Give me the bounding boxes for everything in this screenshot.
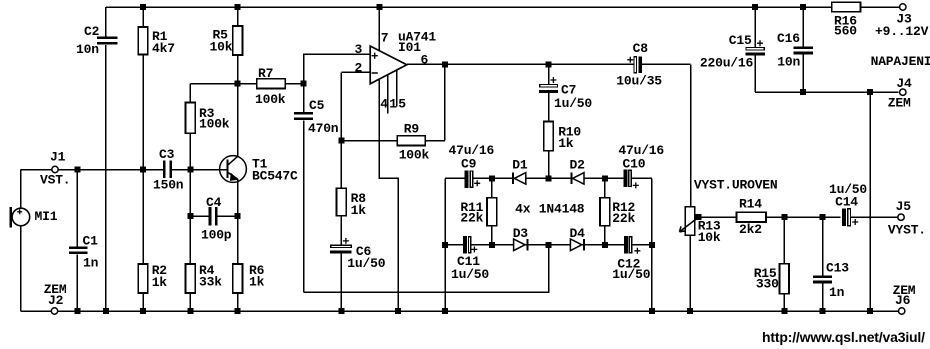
svg-text:1k: 1k <box>351 203 367 218</box>
wire R3/R4 column <box>189 84 191 311</box>
junction pin4 ground <box>395 308 401 314</box>
capacitor C15 220u/16 <box>700 33 765 71</box>
junction C12 right <box>649 242 655 248</box>
wire C4 row <box>190 215 237 217</box>
wire top diode row <box>445 177 652 179</box>
svg-text:4k7: 4k7 <box>152 41 175 56</box>
resistor R9 100k <box>397 122 429 163</box>
svg-text:J6: J6 <box>895 293 911 308</box>
svg-text:470n: 470n <box>308 121 339 136</box>
diode D3 1N4148 <box>513 226 529 251</box>
svg-text:C4: C4 <box>206 195 222 210</box>
capacitor C11 1u/50 <box>451 236 489 282</box>
svg-text:J1: J1 <box>50 150 66 165</box>
svg-text:C10: C10 <box>623 157 646 172</box>
wire output row <box>407 63 691 65</box>
junction C4 left <box>187 213 193 219</box>
svg-text:10n: 10n <box>777 55 800 70</box>
svg-text:100k: 100k <box>255 92 286 107</box>
svg-text:BC547C: BC547C <box>252 169 298 184</box>
pin 5 label <box>398 97 406 112</box>
pin 3 label <box>355 42 363 57</box>
junction D1/D2/R10 <box>546 175 552 181</box>
svg-text:1u/50: 1u/50 <box>829 182 867 197</box>
wire C2 column <box>105 7 107 311</box>
junction R5 top rail <box>235 4 241 10</box>
svg-text:1k: 1k <box>152 275 168 290</box>
wire top supply rail <box>106 6 900 8</box>
wire AGC return row <box>304 245 549 292</box>
label URL <box>762 329 925 345</box>
svg-text:100k: 100k <box>399 148 430 163</box>
junction C9/C11 ground <box>442 308 448 314</box>
svg-text:R7: R7 <box>258 66 273 81</box>
resistor R2 1k <box>138 263 167 293</box>
diode D1 1N4148 <box>512 158 528 185</box>
wire C10/C12 right column <box>651 178 653 311</box>
capacitor C1 1n <box>69 234 99 271</box>
wire ZEM row to J4 <box>755 91 899 93</box>
wire emitter/R6 column <box>237 179 239 311</box>
label NAPAJENI <box>871 54 930 69</box>
svg-text:R14: R14 <box>739 197 762 212</box>
svg-text:ZEM: ZEM <box>888 96 911 111</box>
junction D2/R12 <box>602 175 608 181</box>
junction C16 top rail <box>800 4 806 10</box>
svg-text:C15: C15 <box>729 33 752 48</box>
resistor R7 100k <box>255 66 286 107</box>
wire C15 column <box>754 7 756 92</box>
wire collector column <box>237 84 239 157</box>
potentiometer R13 10k <box>680 207 721 245</box>
resistor R14 2k2 <box>737 197 767 238</box>
junction C2 ground <box>103 308 109 314</box>
svg-text:VYST.: VYST. <box>888 223 926 238</box>
capacitor C7 1u/50 <box>539 77 592 111</box>
svg-text:4: 4 <box>380 97 388 112</box>
label VYST.UROVEN <box>694 178 778 193</box>
capacitor C16 10n <box>777 31 813 70</box>
resistor R5 10k <box>210 26 243 55</box>
pin 7 label <box>381 31 389 46</box>
svg-text:10n: 10n <box>76 42 99 57</box>
wire R9 to output <box>444 64 446 140</box>
junction output C7 <box>546 61 552 67</box>
svg-text:1u/50: 1u/50 <box>612 267 650 282</box>
svg-text:C16: C16 <box>777 31 800 46</box>
junction pin2/R8/R9 <box>338 138 344 144</box>
wire mic to J1 <box>21 169 52 171</box>
wire mic column lower <box>20 225 22 311</box>
junction R13 wiper <box>696 214 702 220</box>
pin 4 label <box>380 97 388 112</box>
wire C9/C11 left column <box>444 178 446 311</box>
svg-text:1u/50: 1u/50 <box>347 256 385 271</box>
resistor R3 100k <box>186 102 230 133</box>
wire wiper to R14 row <box>699 216 841 218</box>
junction R2 ground <box>140 308 146 314</box>
svg-text:D1: D1 <box>512 158 528 173</box>
svg-text:100p: 100p <box>201 228 232 243</box>
svg-text:C2: C2 <box>84 24 100 39</box>
svg-text:C13: C13 <box>826 261 849 276</box>
svg-text:C8: C8 <box>633 41 649 56</box>
diode D2 1N4148 <box>570 158 586 185</box>
svg-text:1N4148: 1N4148 <box>539 202 585 217</box>
junction C10/C12 ground <box>649 308 655 314</box>
svg-text:220u/16: 220u/16 <box>700 56 754 71</box>
svg-text:R9: R9 <box>404 122 420 137</box>
svg-text:C9: C9 <box>461 157 477 172</box>
junction C13 ground <box>820 308 826 314</box>
connector J4 ZEM <box>888 76 912 111</box>
svg-text:J2: J2 <box>48 293 64 308</box>
wire R11 column <box>491 178 493 244</box>
capacitor C8 10u/35 <box>616 41 662 89</box>
wire R1/R2 column <box>142 7 144 311</box>
junction D3/D4 <box>546 242 552 248</box>
wire pin7 column <box>378 7 380 51</box>
svg-text:+9..12V: +9..12V <box>875 24 929 39</box>
svg-text:1n: 1n <box>829 285 845 300</box>
svg-text:1u/50: 1u/50 <box>451 267 489 282</box>
svg-text:4x: 4x <box>515 202 531 217</box>
junction ZEM ground <box>867 308 873 314</box>
svg-text:33k: 33k <box>199 275 222 290</box>
junction R14/R15 <box>781 214 787 220</box>
junction C1 ground <box>74 308 80 314</box>
svg-text:7: 7 <box>381 31 389 46</box>
junction R13 ground <box>687 308 693 314</box>
pin 1 label <box>389 97 397 112</box>
svg-text:http://www.qsl.net/va3iul/: http://www.qsl.net/va3iul/ <box>762 329 925 345</box>
junction R4 ground <box>187 308 193 314</box>
svg-text:C5: C5 <box>309 98 325 113</box>
wire ZEM ground column <box>869 92 871 311</box>
connector J3 +9..12V <box>875 4 929 39</box>
capacitor C9 47u/16 <box>449 143 495 188</box>
svg-text:VYST.UROVEN: VYST.UROVEN <box>694 178 778 193</box>
wire R3 top link <box>190 83 237 85</box>
capacitor C4 100p <box>201 195 232 243</box>
junction collector node <box>235 81 241 87</box>
junction C4 right <box>235 213 241 219</box>
wire R12 column <box>604 178 606 244</box>
capacitor C5 470n <box>294 98 339 136</box>
junction R1/R2 VST <box>140 167 146 173</box>
resistor R11 22k <box>460 198 496 226</box>
svg-text:330: 330 <box>756 277 779 292</box>
wire C1 column <box>76 170 78 312</box>
svg-text:D3: D3 <box>513 226 529 241</box>
wire C8 to R13 <box>690 64 692 207</box>
svg-text:C3: C3 <box>159 147 175 162</box>
svg-text:C1: C1 <box>83 234 99 249</box>
capacitor C14 1u/50 <box>829 182 867 226</box>
svg-text:2k2: 2k2 <box>739 222 762 237</box>
junction C1 VST <box>74 167 80 173</box>
svg-text:10u/35: 10u/35 <box>616 74 662 89</box>
svg-text:5: 5 <box>398 97 406 112</box>
wire R13 bottom column <box>689 235 691 311</box>
svg-text:J4: J4 <box>896 76 912 91</box>
svg-text:D4: D4 <box>570 226 586 241</box>
svg-text:I01: I01 <box>398 40 421 55</box>
svg-text:100k: 100k <box>199 117 230 132</box>
svg-text:1u/50: 1u/50 <box>554 96 592 111</box>
wire C13 column <box>822 217 824 311</box>
resistor R8 1k <box>337 188 367 218</box>
svg-text:6: 6 <box>421 53 429 68</box>
junction C6 ground <box>338 308 344 314</box>
svg-text:150n: 150n <box>153 178 184 193</box>
junction R15 ground <box>781 308 787 314</box>
resistor R4 33k <box>186 263 223 293</box>
svg-text:2: 2 <box>355 61 363 76</box>
transistor T1 BC547C <box>220 156 298 184</box>
op-amp U1 uA741 I01 <box>370 30 436 84</box>
microphone MI1 <box>9 207 57 228</box>
junction ZEM down <box>867 89 873 95</box>
svg-text:1: 1 <box>389 97 397 112</box>
svg-text:560: 560 <box>834 24 857 39</box>
wire pin2 row <box>341 71 370 73</box>
resistor R1 4k7 <box>138 27 175 56</box>
wire ground rail <box>21 310 898 312</box>
wire pin1 stub <box>387 75 389 113</box>
junction C13 top <box>820 214 826 220</box>
svg-text:22k: 22k <box>460 211 483 226</box>
svg-text:J5: J5 <box>896 199 912 214</box>
svg-text:10k: 10k <box>698 230 721 245</box>
wire VST row <box>58 169 226 171</box>
capacitor C12 1u/50 <box>612 236 650 282</box>
resistor R12 22k <box>600 198 635 226</box>
svg-text:1k: 1k <box>558 136 574 151</box>
junction C15 top rail <box>752 4 758 10</box>
resistor R15 330 <box>754 264 789 294</box>
svg-text:1n: 1n <box>83 256 99 271</box>
svg-text:NAPAJENI: NAPAJENI <box>871 54 930 69</box>
svg-text:VST.: VST. <box>40 173 70 188</box>
wire pin2 node column <box>340 72 342 140</box>
junction R6 ground <box>235 308 241 314</box>
wire node A to pin3 <box>304 54 371 84</box>
capacitor C3 150n <box>153 147 184 193</box>
wire R5 column <box>237 7 239 84</box>
junction base node <box>187 167 193 173</box>
svg-text:3: 3 <box>355 42 363 57</box>
svg-text:MI1: MI1 <box>35 209 58 224</box>
wire R15 column <box>783 217 785 311</box>
wire pin4 to ground <box>379 80 398 311</box>
junction pin7 top rail <box>376 4 382 10</box>
resistor R16 560 <box>832 2 861 38</box>
wire R7 row <box>238 83 304 85</box>
junction C9/R11 <box>489 175 495 181</box>
resistor R6 1k <box>233 263 265 293</box>
svg-text:10k: 10k <box>210 40 233 55</box>
wire pin5 stub <box>396 71 398 107</box>
connector J5 VYST <box>888 199 926 238</box>
wire C14 to J5 <box>851 216 898 218</box>
pin 2 label <box>355 61 363 76</box>
wire C5 column <box>303 84 305 292</box>
connector J2 ZEM <box>44 282 67 314</box>
capacitor C13 1n <box>813 261 849 301</box>
pin 6 label <box>421 53 429 68</box>
junction R1 top rail <box>140 4 146 10</box>
capacitor C10 47u/16 <box>618 143 664 188</box>
junction C11 left <box>442 242 448 248</box>
capacitor C6 1u/50 <box>330 238 386 271</box>
svg-text:1k: 1k <box>249 275 265 290</box>
junction output R9 <box>442 61 448 67</box>
connector J1 VST <box>40 150 70 188</box>
label 4x 1N4148 <box>515 202 585 217</box>
svg-text:D2: D2 <box>570 158 586 173</box>
junction C11/R11 <box>489 242 495 248</box>
resistor R10 1k <box>544 122 582 152</box>
capacitor C2 10n <box>76 24 117 57</box>
wire bottom diode row <box>445 244 652 246</box>
wire R9 row <box>341 140 445 142</box>
wire C16 column <box>802 7 804 92</box>
junction C16 ZEM row <box>800 89 806 95</box>
junction node A <box>301 81 307 87</box>
wire C7/R10 column <box>548 64 550 178</box>
junction D4/R12 <box>602 242 608 248</box>
connector J6 ZEM <box>893 283 916 314</box>
wire mic column upper <box>20 170 22 209</box>
diode D4 1N4148 <box>570 226 586 251</box>
svg-text:22k: 22k <box>612 211 635 226</box>
wire R8/C6 column <box>340 141 342 311</box>
